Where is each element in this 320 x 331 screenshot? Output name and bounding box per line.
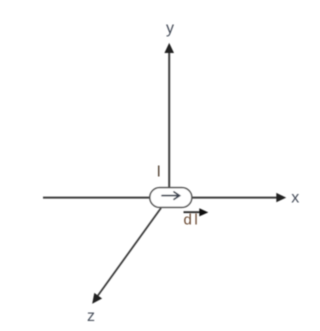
wire x-axis line bbox=[43, 197, 278, 199]
node y-axis arrowhead bbox=[164, 43, 174, 53]
svg-text:y: y bbox=[166, 20, 174, 37]
node z-axis arrowhead bbox=[92, 293, 102, 304]
current element oval bbox=[150, 188, 192, 208]
wire y-axis line bbox=[168, 51, 170, 189]
wire dl vector overline bbox=[184, 211, 201, 213]
svg-text:z: z bbox=[87, 308, 95, 325]
svg-text:x: x bbox=[291, 189, 299, 206]
node x-axis arrowhead bbox=[276, 193, 286, 202]
node dl vector arrowhead bbox=[199, 208, 208, 216]
wire z-axis line bbox=[97, 208, 162, 298]
svg-text:dl: dl bbox=[184, 212, 201, 229]
svg-text:I: I bbox=[157, 164, 161, 181]
current direction arrow inside oval bbox=[162, 192, 180, 199]
